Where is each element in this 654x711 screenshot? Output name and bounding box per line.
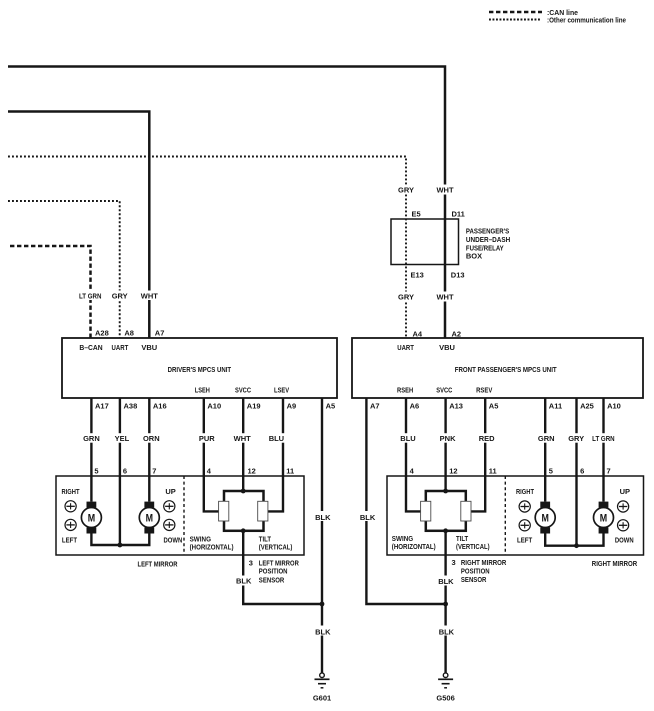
- svg-text:UART: UART: [112, 343, 129, 352]
- svg-text:DOWN: DOWN: [615, 536, 634, 545]
- label GRY: [111, 291, 129, 301]
- wire GRY other-communication line to driver A8: [8, 201, 120, 338]
- wire PNK from A13 to right sensor center: [444, 398, 446, 491]
- motor M3 left-right: [535, 502, 555, 534]
- polarity mark lower left of right M1: [519, 520, 530, 531]
- svg-text:A7: A7: [155, 329, 165, 338]
- wire BLU from A6 to right sensor swing: [406, 398, 421, 511]
- svg-text:PNK: PNK: [440, 434, 456, 443]
- motor M4 up-down: [594, 502, 614, 534]
- svg-text::Other communication line: :Other communication line: [547, 16, 626, 25]
- svg-text:A5: A5: [326, 402, 336, 411]
- svg-text:A38: A38: [124, 402, 138, 411]
- junction left mirror common: [118, 543, 123, 548]
- polarity mark lower left mirror: [65, 519, 76, 530]
- svg-text:A7: A7: [370, 402, 380, 411]
- svg-text:(VERTICAL): (VERTICAL): [259, 542, 293, 551]
- wire GRN from A11 to right mirror motor: [544, 398, 546, 502]
- svg-text:A25: A25: [580, 402, 594, 411]
- polarity mark upper right of M4: [618, 501, 629, 512]
- label TILT (VERTICAL) right: [456, 534, 490, 551]
- wire BLK from passenger A7 to ground rail: [366, 398, 445, 604]
- svg-text:M: M: [88, 513, 95, 525]
- svg-text:(HORIZONTAL): (HORIZONTAL): [190, 542, 234, 551]
- label BLK ground wire G601: [314, 626, 331, 637]
- svg-text:BLU: BLU: [400, 434, 415, 443]
- svg-text:7: 7: [607, 466, 611, 475]
- left mirror assembly box: [56, 476, 304, 555]
- svg-text:WHT: WHT: [436, 293, 453, 302]
- wire RED from A5 to right sensor tilt: [471, 398, 485, 511]
- svg-text:GRY: GRY: [398, 293, 414, 302]
- svg-text:BLK: BLK: [236, 576, 252, 585]
- svg-text:DOWN: DOWN: [164, 535, 183, 544]
- left sensor tilt element: [258, 501, 268, 521]
- svg-text:11: 11: [286, 466, 294, 475]
- label GRN wire A11: [538, 433, 556, 443]
- svg-text:BLU: BLU: [269, 434, 284, 443]
- svg-text:M: M: [542, 513, 549, 525]
- wire LT GRN CAN line to driver A28: [10, 246, 91, 338]
- svg-text:LT GRN: LT GRN: [79, 291, 102, 300]
- junction right sensor bottom: [443, 528, 448, 533]
- svg-text:LSEH: LSEH: [195, 385, 210, 394]
- label RED: [478, 433, 495, 443]
- svg-text:A8: A8: [124, 329, 134, 338]
- svg-text:E5: E5: [412, 209, 421, 218]
- wire GRY other-communication line to fuse box E5 and through to A4: [8, 157, 406, 339]
- polarity mark upper right of M2: [164, 501, 175, 512]
- svg-text:GRY: GRY: [568, 434, 584, 443]
- right mirror dashed separator: [504, 476, 506, 555]
- svg-text:GRY: GRY: [398, 186, 414, 195]
- svg-text:UP: UP: [620, 487, 630, 496]
- motor M1 left-right: [81, 502, 101, 534]
- label PNK: [439, 433, 457, 443]
- svg-text:RSEH: RSEH: [397, 385, 413, 394]
- svg-text:G601: G601: [313, 694, 331, 703]
- label RIGHT MIRROR POSITION SENSOR: [461, 558, 507, 584]
- label LT GRN wire A10: [592, 433, 616, 443]
- junction left sensor bottom: [241, 528, 246, 533]
- label GRN: [83, 433, 101, 443]
- svg-text:A6: A6: [410, 402, 420, 411]
- svg-text:BLK: BLK: [439, 627, 455, 636]
- driver's MPCS unit box U1: [62, 338, 337, 398]
- label PASSENGER'S UNDER-DASH FUSE/RELAY BOX: [466, 227, 510, 261]
- wire PUR from A10 to sensor swing: [204, 398, 219, 511]
- junction right sensor top: [443, 489, 448, 494]
- svg-text:E13: E13: [411, 270, 424, 279]
- svg-text:B–CAN: B–CAN: [79, 343, 102, 352]
- svg-text:RED: RED: [479, 434, 495, 443]
- svg-text:A28: A28: [95, 329, 109, 338]
- svg-text:WHT: WHT: [436, 186, 453, 195]
- svg-text:A2: A2: [452, 329, 462, 338]
- svg-text:6: 6: [580, 466, 584, 475]
- svg-text:BOX: BOX: [466, 252, 482, 261]
- svg-text:A16: A16: [153, 402, 167, 411]
- wire WHT from A19 to sensor center: [242, 398, 244, 491]
- wire BLU from A9 to sensor tilt: [268, 398, 283, 511]
- label BLK left sensor wire: [235, 576, 252, 586]
- svg-text:PUR: PUR: [199, 434, 215, 443]
- svg-text:12: 12: [449, 466, 457, 475]
- left sensor swing element: [219, 501, 229, 521]
- wire LT GRN from A10 to right mirror motor: [602, 398, 604, 502]
- label WHT wire A19: [233, 433, 251, 443]
- label SWING (HORIZONTAL) left: [190, 534, 234, 551]
- polarity mark lower right of M4: [618, 520, 629, 531]
- label WHT above fuse box: [436, 185, 453, 195]
- svg-text:BLK: BLK: [438, 577, 454, 586]
- junction BLK rail G506: [443, 602, 448, 607]
- wire GRY from A25 into right mirror common: [575, 398, 577, 546]
- label BLU wire A9: [268, 433, 285, 443]
- svg-text:BLK: BLK: [315, 627, 331, 636]
- svg-text:GRN: GRN: [83, 434, 100, 443]
- label BLK wire A5: [314, 511, 331, 522]
- label GRY above fuse box: [396, 185, 416, 195]
- label GRY below fuse box: [396, 292, 416, 302]
- svg-text:7: 7: [152, 466, 156, 475]
- polarity mark upper left mirror: [65, 501, 76, 512]
- svg-text:RIGHT: RIGHT: [62, 487, 80, 496]
- svg-text:M: M: [600, 513, 607, 525]
- svg-text:A10: A10: [207, 402, 221, 411]
- svg-text:BLK: BLK: [315, 513, 331, 522]
- wire ORN from A16 to left mirror motor: [148, 398, 150, 502]
- label BLK right sensor wire: [437, 576, 454, 586]
- junction left sensor top: [241, 489, 246, 494]
- svg-text:FRONT PASSENGER'S MPCS UNIT: FRONT PASSENGER'S MPCS UNIT: [455, 365, 557, 374]
- svg-text:UART: UART: [397, 343, 414, 352]
- svg-text:GRN: GRN: [538, 434, 555, 443]
- svg-text:WHT: WHT: [141, 291, 158, 300]
- svg-text:LEFT: LEFT: [62, 535, 78, 544]
- svg-text:ORN: ORN: [143, 434, 160, 443]
- svg-text:GRY: GRY: [112, 291, 128, 300]
- svg-text:SENSOR: SENSOR: [461, 575, 487, 584]
- svg-text:LEFT: LEFT: [517, 536, 533, 545]
- svg-text:YEL: YEL: [115, 434, 130, 443]
- svg-text:WHT: WHT: [234, 434, 251, 443]
- ground G506: [436, 673, 454, 703]
- svg-text:A4: A4: [413, 329, 423, 338]
- legend other communication line sample: [489, 19, 541, 21]
- motor M2 up-down: [139, 502, 159, 534]
- svg-text:BLK: BLK: [360, 513, 376, 522]
- label LT GRN: [79, 291, 103, 301]
- svg-text:LEFT MIRROR: LEFT MIRROR: [138, 559, 178, 568]
- svg-text:3: 3: [249, 558, 253, 567]
- svg-text:A19: A19: [247, 402, 261, 411]
- label BLK wire passenger A7: [359, 511, 376, 522]
- wire YEL from A38 into left mirror common: [119, 398, 121, 545]
- label GRY wire A25: [568, 433, 586, 443]
- svg-text:3: 3: [452, 558, 456, 567]
- svg-text:A9: A9: [287, 402, 297, 411]
- wire WHT feed to driver A7: [8, 112, 149, 339]
- svg-text:RSEV: RSEV: [476, 385, 492, 394]
- svg-text:SVCC: SVCC: [235, 385, 251, 394]
- svg-text:5: 5: [94, 466, 98, 475]
- right sensor tilt element: [461, 501, 471, 521]
- junction right mirror common: [574, 543, 579, 548]
- svg-text:SENSOR: SENSOR: [259, 575, 285, 584]
- svg-text:5: 5: [549, 466, 553, 475]
- wire BLK right sensor to ground G506: [444, 531, 446, 673]
- svg-text:(HORIZONTAL): (HORIZONTAL): [392, 542, 436, 551]
- right position sensor loop: [426, 491, 466, 531]
- label ORN: [143, 433, 161, 443]
- wire motor common right mirror: [545, 534, 603, 546]
- svg-text:A17: A17: [95, 402, 109, 411]
- label PUR: [198, 433, 215, 443]
- svg-text:DRIVER'S MPCS UNIT: DRIVER'S MPCS UNIT: [168, 365, 232, 374]
- wire motor common left mirror: [91, 534, 149, 546]
- svg-text:SVCC: SVCC: [436, 385, 452, 394]
- svg-text:(VERTICAL): (VERTICAL): [456, 542, 490, 551]
- right mirror assembly box: [387, 476, 644, 555]
- label TILT (VERTICAL) left: [259, 534, 293, 551]
- svg-text:LT GRN: LT GRN: [592, 434, 615, 443]
- svg-text:UP: UP: [165, 487, 175, 496]
- svg-text:A10: A10: [607, 402, 621, 411]
- right sensor swing element: [421, 501, 431, 521]
- svg-text:RIGHT MIRROR: RIGHT MIRROR: [592, 559, 638, 568]
- svg-text:A5: A5: [489, 402, 499, 411]
- wire GRN from A17 to left mirror motor: [90, 398, 92, 502]
- svg-text:12: 12: [248, 466, 256, 475]
- wire BLK left sensor to ground rail: [243, 531, 322, 604]
- front passenger's MPCS unit box U2: [352, 338, 643, 398]
- svg-text:LSEV: LSEV: [274, 385, 289, 394]
- junction BLK rail G601: [320, 602, 325, 607]
- svg-text:G506: G506: [436, 694, 454, 703]
- svg-text:D11: D11: [452, 209, 465, 218]
- svg-text:M: M: [146, 513, 153, 525]
- svg-text:RIGHT: RIGHT: [516, 487, 534, 496]
- passenger's under-dash fuse/relay box: [391, 219, 459, 265]
- polarity mark lower right of M2: [164, 519, 175, 530]
- left mirror dashed separator: [183, 476, 185, 555]
- wire WHT feed from top to fuse box D11 and through to A2: [8, 67, 445, 339]
- label YEL: [114, 433, 131, 443]
- label LEFT MIRROR POSITION SENSOR: [259, 558, 299, 584]
- svg-text:D13: D13: [451, 270, 465, 279]
- svg-text:6: 6: [123, 466, 127, 475]
- ground G601: [313, 673, 331, 703]
- label BLK ground wire G506: [438, 626, 455, 637]
- label WHT below fuse box: [436, 292, 453, 302]
- svg-text:A11: A11: [549, 402, 562, 411]
- label WHT: [141, 291, 159, 301]
- polarity mark upper left of right M1: [519, 501, 530, 512]
- svg-text:A13: A13: [449, 402, 463, 411]
- svg-text:VBU: VBU: [141, 343, 157, 352]
- svg-text:VBU: VBU: [439, 343, 455, 352]
- label SWING (HORIZONTAL) right: [392, 534, 436, 551]
- svg-text:11: 11: [489, 466, 497, 475]
- left position sensor loop: [224, 491, 264, 531]
- label BLU wire A6: [400, 433, 417, 443]
- legend CAN line sample: [489, 11, 542, 14]
- wire BLK from A5 to ground G601: [321, 398, 323, 673]
